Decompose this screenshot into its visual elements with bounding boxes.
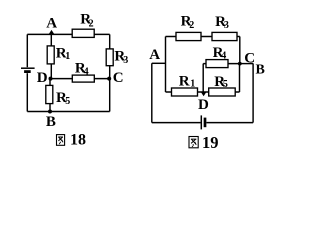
wire: right wire lower (R3 to bottom through C) [109,66,111,112]
resistor R5 box [46,85,53,103]
svg-text:19: 19 [202,133,219,152]
svg-text:4: 4 [84,66,89,77]
svg-text:D: D [37,70,48,86]
node B dot [48,110,52,114]
wire: A stub [152,62,166,64]
svg-text:4: 4 [221,51,226,62]
caption fig19: tu character [189,137,198,148]
wire: left wire upper (to battery) [26,34,28,67]
wire: C to B corner wire [240,63,253,65]
wire: R4 branch horizontal [203,63,240,65]
resistor R1 box (fig19) [172,88,198,96]
caption fig18: tu character [57,135,65,146]
wire: D to R5 [49,79,51,86]
wire: top branch [166,36,240,38]
resistor R2 box [72,29,94,37]
resistor R5 box (fig19) [209,88,236,96]
svg-text:A: A [46,16,57,32]
wire: right wire upper (to R3) [109,34,111,49]
wire: left wire lower (battery to bottom) [26,73,28,111]
svg-text:1: 1 [65,51,70,62]
wire: A to R1 [50,34,52,45]
svg-text:A: A [149,47,160,63]
wire: left outer wire [151,63,153,122]
svg-text:3: 3 [224,20,229,31]
svg-text:18: 18 [70,131,86,148]
wire: R1-R5 row [166,91,240,93]
resistor R3 box (fig19) [212,32,237,40]
resistor R2 box (fig19) [176,32,201,40]
svg-text:B: B [256,62,265,77]
wire: D to C row [50,78,109,80]
resistor R4 box [72,75,94,82]
wire: bottom wire [27,111,109,113]
battery G1 short plate [24,70,31,73]
node D dot [49,77,53,81]
svg-text:1: 1 [190,79,195,90]
svg-text:D: D [198,97,209,113]
node C dot [107,77,111,81]
node C dot (fig19) [238,62,242,66]
resistor R1 box [47,46,54,64]
svg-text:5: 5 [223,79,228,90]
svg-text:C: C [113,70,124,86]
node A junction arrow [48,30,54,35]
battery G1 long plate [21,67,35,69]
svg-text:3: 3 [123,55,128,66]
wire: bottom wire right of battery [206,122,253,124]
wire: row right end up to C [239,64,241,92]
wire: top wire A row [27,33,109,35]
resistor R4 box (fig19) [206,60,228,68]
wire: inner left vertical (A to top branch and R1 row) [165,37,167,93]
node D junction arrow (fig19) [201,92,207,97]
wire: R4 left corner down to D [202,64,204,92]
wire: R1 to D [50,64,52,79]
svg-text:2: 2 [89,19,94,30]
wire: right outer wire [252,63,254,122]
wire: bottom wire left of battery [152,122,201,124]
svg-text:2: 2 [189,20,194,31]
resistor R3 box [106,49,113,66]
battery G2 short plate [204,118,207,128]
battery G2 long plate [200,115,202,129]
svg-text:5: 5 [65,96,70,107]
svg-text:R: R [179,73,190,89]
svg-text:C: C [244,50,255,66]
wire: top branch down to C [239,37,241,64]
wire: R5 to B [49,104,51,112]
svg-text:B: B [46,114,56,130]
